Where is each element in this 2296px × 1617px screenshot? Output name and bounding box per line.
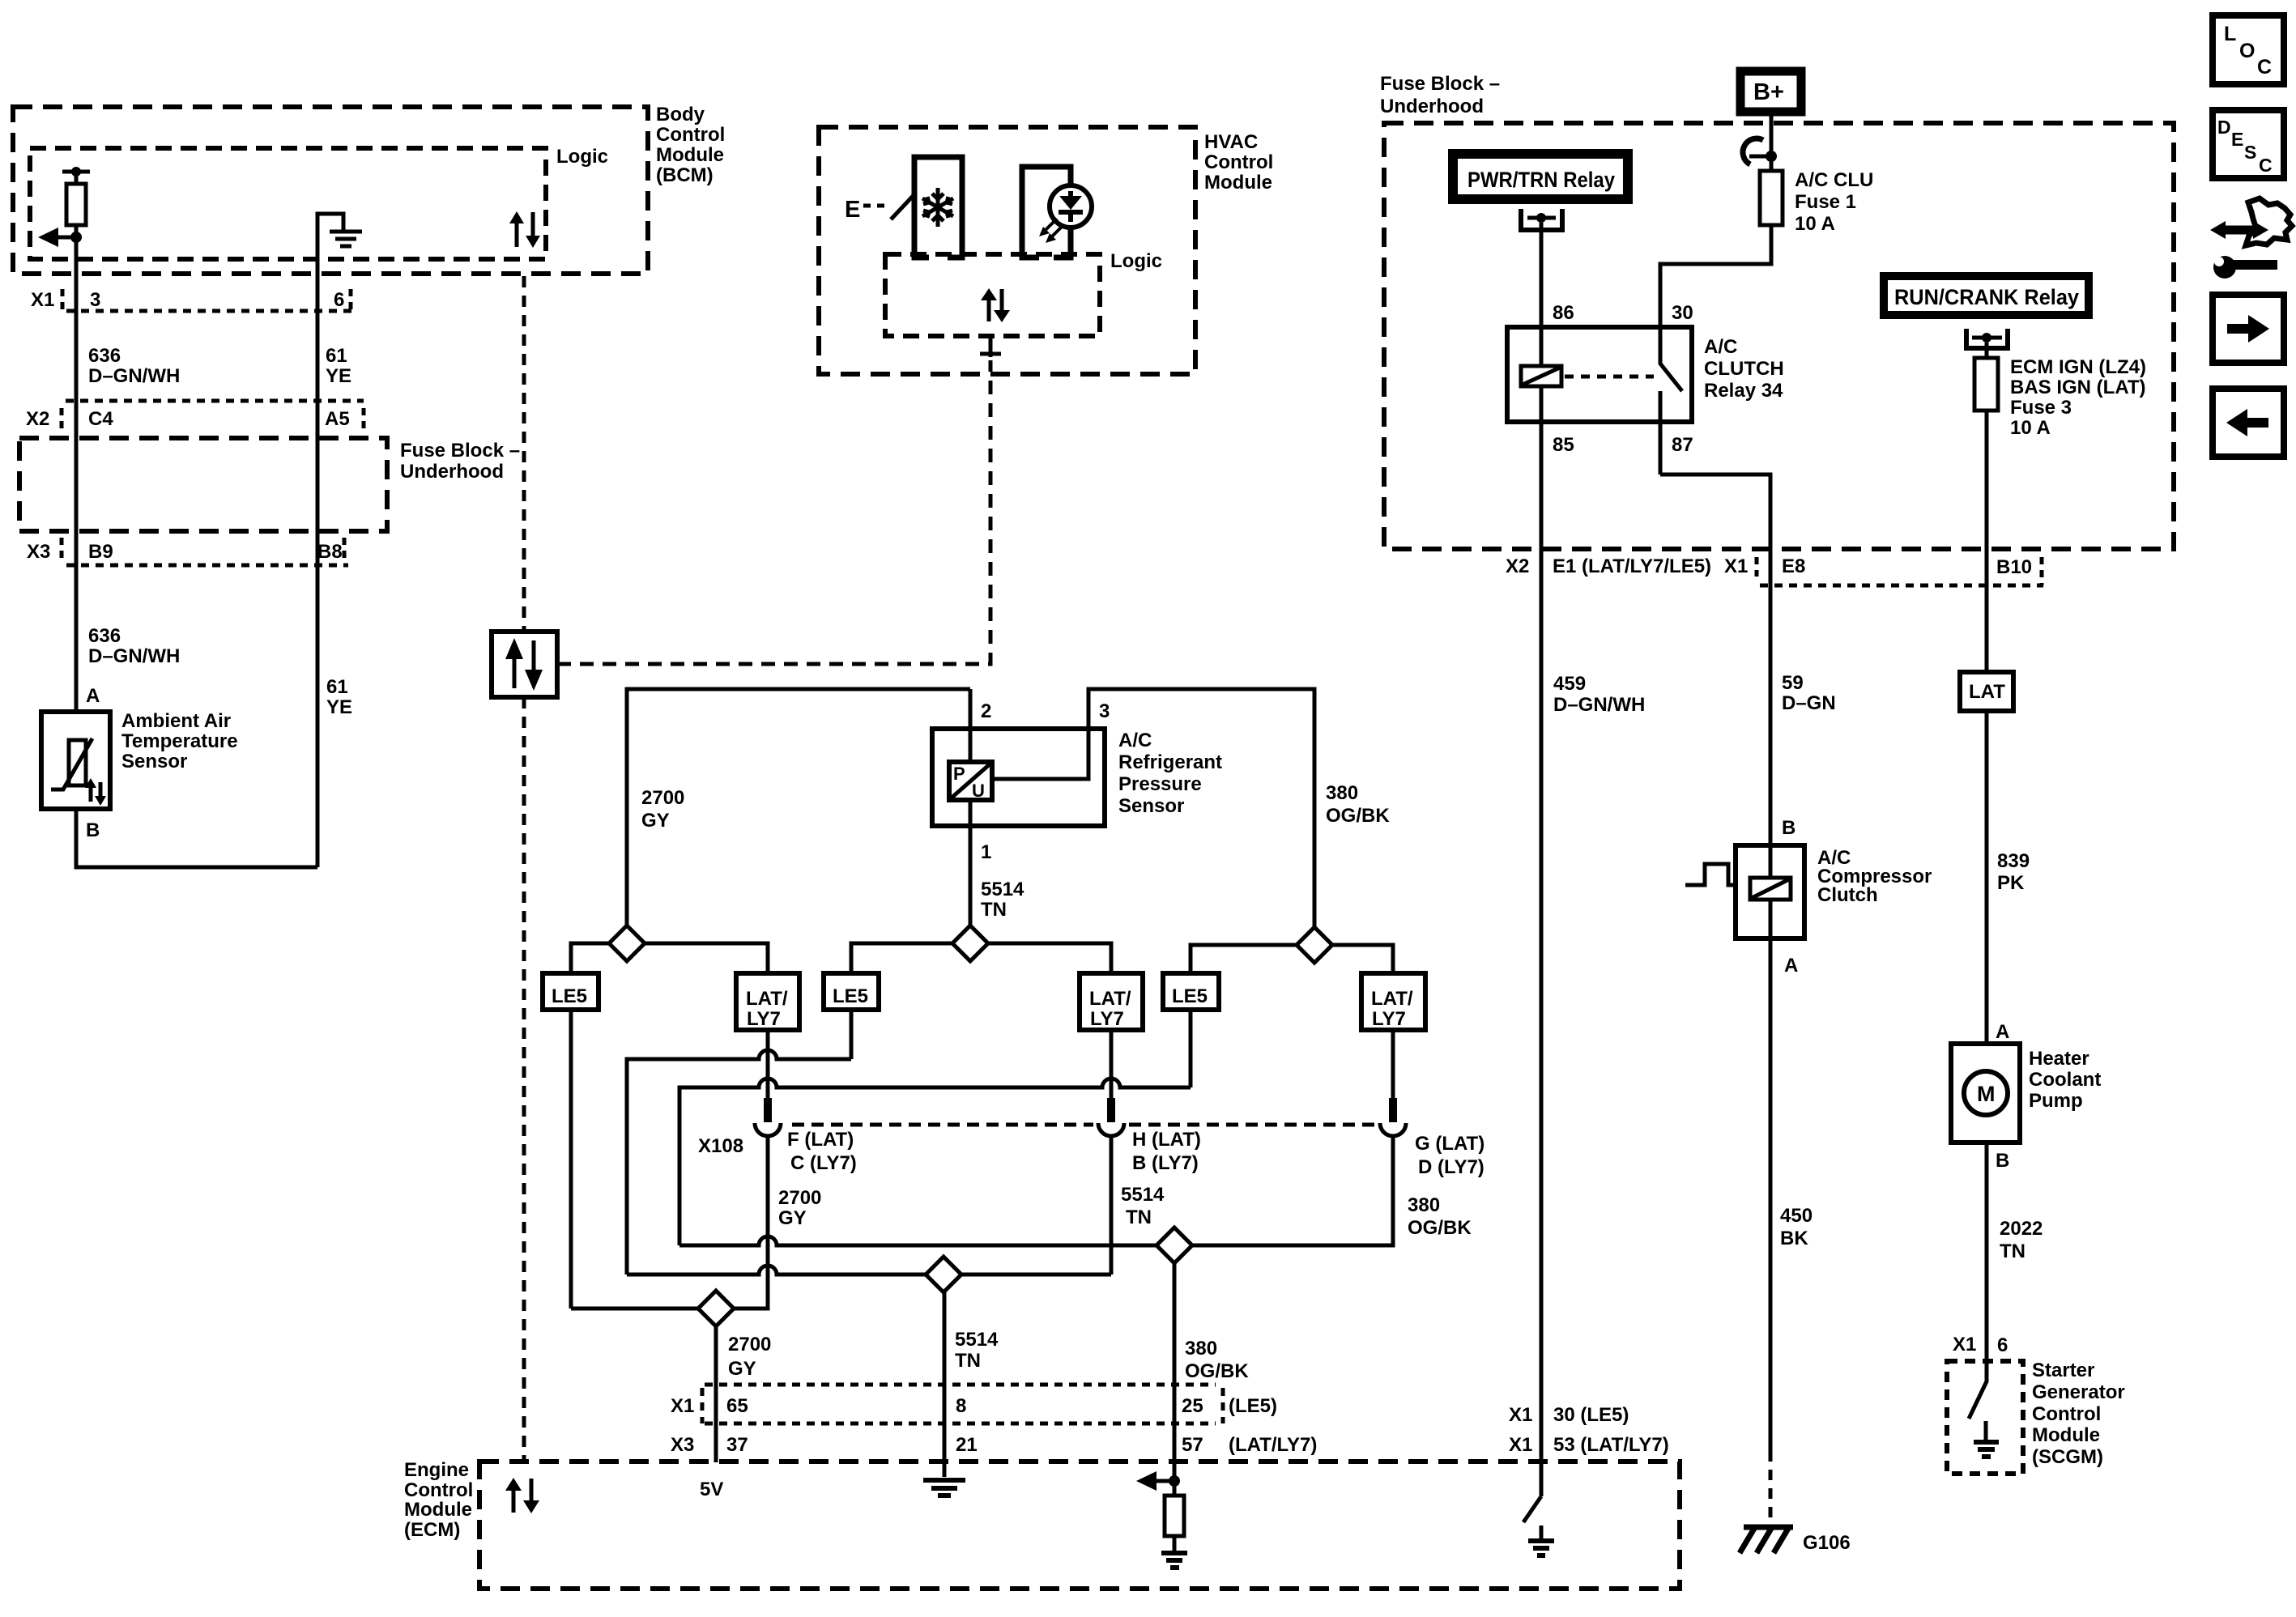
- pump motor circle: [1964, 1071, 2008, 1115]
- wire resistor to node: [75, 225, 79, 237]
- svg-text:LE5: LE5: [552, 985, 587, 1007]
- wire LAT/LY7#1 down to X108 pin: [766, 1030, 770, 1098]
- svg-text:5514: 5514: [955, 1329, 999, 1351]
- svg-text:TN: TN: [955, 1350, 981, 1372]
- svg-text:8: 8: [956, 1395, 966, 1417]
- svg-text:839: 839: [1997, 850, 2030, 872]
- svg-text:380: 380: [1326, 782, 1358, 804]
- engine code box LE5 #1: [543, 973, 598, 1010]
- svg-text:Control: Control: [1204, 151, 1273, 173]
- svg-text:A: A: [1996, 1021, 2009, 1043]
- svg-text:Logic: Logic: [1110, 250, 1162, 272]
- svg-text:(LAT/LY7): (LAT/LY7): [1229, 1434, 1317, 1456]
- SCGM ground: [1984, 1421, 1988, 1440]
- svg-text:Module: Module: [1204, 172, 1272, 194]
- svg-text:M: M: [1977, 1082, 1996, 1106]
- svg-text:2022: 2022: [2000, 1218, 2043, 1240]
- wire LAT to heater pump: [1985, 711, 1989, 1044]
- svg-text:A: A: [1784, 955, 1798, 977]
- wire 85 down to ECM: [1540, 422, 1544, 1496]
- svg-text:LE5: LE5: [1172, 985, 1208, 1007]
- svg-text:61: 61: [326, 676, 348, 698]
- X1 connector dashed line: [66, 309, 356, 313]
- resistor top junction dot: [71, 167, 81, 177]
- svg-text:TN: TN: [981, 899, 1007, 921]
- LED light arrows: [1039, 219, 1063, 243]
- engine code box LAT/LY7 #2: [1080, 973, 1143, 1030]
- svg-text:C4: C4: [88, 408, 113, 430]
- wire to ECM 25: [1173, 1263, 1177, 1496]
- internal wire pin3: [992, 689, 1314, 927]
- svg-text:LAT: LAT: [1969, 681, 2005, 703]
- svg-text:OG/BK: OG/BK: [1326, 805, 1390, 827]
- X108 dashed connector line: [792, 1123, 1093, 1127]
- svg-text:636: 636: [88, 345, 121, 367]
- svg-text:D–GN: D–GN: [1782, 692, 1836, 714]
- svg-text:B: B: [1782, 817, 1795, 839]
- DESC icon box: [2213, 110, 2284, 178]
- svg-text:30 (LE5): 30 (LE5): [1553, 1404, 1629, 1426]
- sensor box: [932, 729, 1105, 826]
- svg-text:E1 (LAT/LY7/LE5): E1 (LAT/LY7/LE5): [1553, 555, 1711, 577]
- svg-text:X1: X1: [1953, 1334, 1976, 1355]
- LED diode: [1059, 196, 1082, 210]
- engine code box LAT/LY7 #3: [1361, 973, 1425, 1030]
- svg-text:B8: B8: [317, 541, 343, 563]
- ground symbol inside BCM logic: [317, 214, 343, 311]
- svg-text:BAS IGN (LAT): BAS IGN (LAT): [2010, 377, 2146, 398]
- svg-text:Module: Module: [404, 1499, 472, 1521]
- svg-text:Logic: Logic: [556, 146, 608, 168]
- RUN/CRANK flag symbol: [1966, 329, 2008, 348]
- HVAC logic stub: [980, 336, 1001, 357]
- svg-text:Engine: Engine: [404, 1459, 469, 1481]
- svg-text:X1: X1: [1509, 1434, 1532, 1456]
- svg-text:OG/BK: OG/BK: [1408, 1217, 1472, 1239]
- signal arrow left: [1156, 1479, 1174, 1483]
- svg-text:2: 2: [981, 700, 991, 722]
- wire 87 to compressor column: [1660, 474, 1770, 845]
- svg-text:O: O: [2239, 40, 2255, 62]
- fuse block underhood (left) dashed box: [19, 438, 387, 531]
- A/C CLU Fuse 1: [1760, 171, 1783, 225]
- P/U transducer square: [949, 762, 992, 800]
- heater coolant pump box: [1951, 1044, 2020, 1143]
- splice diamond (5514 TN): [952, 926, 988, 961]
- svg-text:S: S: [2244, 142, 2256, 163]
- A/C CLUTCH relay box: [1507, 327, 1692, 422]
- svg-text:61: 61: [326, 345, 347, 367]
- wire 2700 GY top run: [627, 689, 970, 926]
- svg-text:636: 636: [88, 625, 121, 647]
- wire H down, corner at 1574: [1110, 1135, 1114, 1274]
- svg-text:Sensor: Sensor: [121, 751, 187, 772]
- svg-text:PWR/TRN Relay: PWR/TRN Relay: [1467, 168, 1615, 192]
- ECM X3 connector dashed line: [705, 1422, 1216, 1426]
- svg-text:59: 59: [1782, 672, 1804, 694]
- wire to ECM 65: [714, 1326, 718, 1462]
- svg-text:Underhood: Underhood: [400, 461, 504, 483]
- svg-text:450: 450: [1780, 1205, 1813, 1227]
- svg-text:Module: Module: [2032, 1424, 2100, 1446]
- wire fuse 3 down: [1985, 411, 1989, 672]
- svg-text:(LE5): (LE5): [1229, 1395, 1277, 1417]
- dashed serial wire splice box to HVAC: [557, 360, 990, 664]
- ECM X1 connector dashed line: [705, 1383, 1216, 1387]
- svg-text:Coolant: Coolant: [2029, 1069, 2101, 1091]
- branch wires diamond1: [571, 943, 609, 973]
- svg-text:Fuse Block –: Fuse Block –: [1380, 73, 1500, 95]
- ECM internal ground: [1540, 1526, 1544, 1539]
- SCGM switch blade: [1969, 1361, 1987, 1419]
- switch blade: [891, 193, 916, 219]
- ECM serial arrows: [512, 1488, 516, 1513]
- wire BCM pin 6 down (61 YE): [316, 311, 320, 867]
- svg-text:E: E: [2231, 129, 2243, 150]
- svg-text:459: 459: [1553, 673, 1586, 695]
- svg-text:C: C: [2257, 56, 2272, 79]
- svg-text:G (LAT): G (LAT): [1415, 1133, 1485, 1155]
- svg-text:Fuse 1: Fuse 1: [1795, 191, 1856, 213]
- svg-text:A5: A5: [325, 408, 350, 430]
- svg-text:B10: B10: [1996, 556, 2032, 578]
- svg-text:65: 65: [726, 1395, 748, 1417]
- svg-text:ECM IGN (LZ4): ECM IGN (LZ4): [2010, 356, 2146, 378]
- relay coil: [1521, 366, 1561, 386]
- svg-text:57: 57: [1182, 1434, 1203, 1456]
- branch wires diamond2: [851, 943, 952, 973]
- svg-text:A/C: A/C: [1704, 336, 1737, 358]
- svg-text:B+: B+: [1753, 79, 1784, 105]
- fuse block underhood (right) dashed box: [1384, 123, 2174, 549]
- lower bus 1616: [571, 1307, 716, 1311]
- splice diamond lower (380 OG/BK): [1157, 1228, 1192, 1263]
- svg-text:B: B: [1996, 1150, 2009, 1172]
- svg-text:Refrigerant: Refrigerant: [1118, 751, 1222, 773]
- node dot on 380 wire: [1169, 1475, 1180, 1487]
- ECM internal switch blade: [1523, 1496, 1541, 1522]
- X108 pin F: [764, 1098, 772, 1122]
- splice diamond lower (2700 GY): [698, 1291, 734, 1326]
- svg-text:YE: YE: [326, 696, 352, 718]
- svg-text:5514: 5514: [1121, 1184, 1165, 1206]
- svg-text:Pressure: Pressure: [1118, 773, 1202, 795]
- PWR/TRN Relay label box: [1453, 154, 1628, 199]
- B+ feed wire: [1770, 116, 1774, 171]
- wire PWR/TRN to relay coil 86: [1540, 223, 1544, 327]
- svg-text:TN: TN: [1126, 1206, 1152, 1228]
- wire LE5#1 down: [569, 1010, 573, 1308]
- svg-text:(SCGM): (SCGM): [2032, 1446, 2103, 1468]
- splice diamond lower (5514 TN): [926, 1257, 961, 1292]
- svg-text:A: A: [86, 685, 100, 707]
- svg-text:D–GN/WH: D–GN/WH: [88, 645, 180, 667]
- wire LAT/LY7#2 down to X108 pin: [1110, 1030, 1114, 1098]
- svg-text:RUN/CRANK Relay: RUN/CRANK Relay: [1894, 285, 2079, 309]
- svg-text:TN: TN: [2000, 1240, 2026, 1262]
- svg-text:6: 6: [334, 289, 344, 311]
- serial data arrows in BCM logic: [515, 221, 519, 247]
- svg-text:5V: 5V: [700, 1479, 723, 1500]
- svg-text:GY: GY: [778, 1207, 807, 1229]
- svg-text:Sensor: Sensor: [1118, 795, 1184, 817]
- E dashed control line: [863, 204, 891, 208]
- svg-text:B: B: [86, 819, 100, 841]
- svg-text:LAT/: LAT/: [1371, 988, 1413, 1010]
- svg-text:U: U: [972, 781, 985, 801]
- resistor to ground: [1165, 1496, 1184, 1536]
- svg-text:LY7: LY7: [1372, 1008, 1406, 1030]
- svg-text:E8: E8: [1782, 555, 1805, 577]
- svg-text:Temperature: Temperature: [121, 730, 238, 752]
- svg-text:Fuse 3: Fuse 3: [2010, 397, 2072, 419]
- X108 pin G: [1389, 1098, 1397, 1122]
- svg-text:86: 86: [1553, 302, 1574, 324]
- svg-text:X108: X108: [698, 1135, 743, 1157]
- svg-text:C: C: [2259, 155, 2273, 176]
- svg-text:HVAC: HVAC: [1204, 131, 1258, 153]
- relay dashed link: [1565, 375, 1654, 379]
- ground symbol: [1161, 1553, 1187, 1568]
- svg-text:Control: Control: [404, 1479, 473, 1501]
- wire sensor B down and loop to 61 YE: [76, 809, 317, 867]
- resistor (BCM pull-up) top bar: [62, 170, 90, 174]
- svg-text:GY: GY: [641, 810, 670, 832]
- wire BCM pin 3 down: [75, 237, 79, 712]
- lower bus 1538 with hops: [679, 1236, 1165, 1245]
- svg-text:1: 1: [981, 841, 991, 863]
- svg-text:P: P: [953, 764, 965, 784]
- svg-text:6: 6: [1997, 1334, 2008, 1356]
- ECM module dashed box: [479, 1462, 1680, 1589]
- svg-text:Underhood: Underhood: [1380, 96, 1484, 117]
- svg-text:3: 3: [1099, 700, 1110, 722]
- svg-text:LE5: LE5: [833, 985, 868, 1007]
- lower bus 1574 with hop: [627, 1266, 1111, 1274]
- svg-text:2700: 2700: [778, 1187, 821, 1209]
- svg-text:B (LY7): B (LY7): [1132, 1152, 1199, 1174]
- svg-text:Starter: Starter: [2032, 1360, 2094, 1381]
- wire F down, corner at 1616: [716, 1135, 768, 1308]
- LED circle: [1050, 185, 1092, 228]
- ECM IGN / BAS IGN Fuse 3: [1985, 343, 1989, 358]
- wire LAT/LY7#3 down to X108 pin: [1391, 1030, 1395, 1098]
- BCM module dashed box: [13, 107, 648, 274]
- svg-text:25: 25: [1182, 1395, 1203, 1417]
- splice diamond (380 OG/BK): [1297, 927, 1332, 963]
- back arrow icon box: [2213, 389, 2284, 457]
- svg-text:E: E: [845, 197, 860, 223]
- wire pin1 down to splice: [969, 800, 973, 926]
- HVAC indicator (LED) box: [1022, 167, 1071, 257]
- clutch mechanical link: [1685, 864, 1736, 885]
- svg-text:LY7: LY7: [747, 1008, 781, 1030]
- LOC icon box: [2213, 15, 2284, 84]
- svg-text:Generator: Generator: [2032, 1381, 2125, 1403]
- svg-text:30: 30: [1672, 302, 1693, 324]
- splice diamond (2700 GY): [609, 926, 645, 961]
- svg-text:Control: Control: [2032, 1403, 2101, 1425]
- wire to ECM 8: [943, 1292, 947, 1477]
- svg-text:10 A: 10 A: [2010, 417, 2051, 439]
- svg-text:OG/BK: OG/BK: [1185, 1360, 1249, 1382]
- svg-text:X2: X2: [1506, 555, 1529, 577]
- svg-text:37: 37: [726, 1434, 748, 1456]
- svg-text:Pump: Pump: [2029, 1090, 2083, 1112]
- svg-text:X1: X1: [31, 289, 54, 311]
- ambient air temperature sensor box: [41, 712, 110, 809]
- svg-text:X1: X1: [671, 1395, 694, 1417]
- svg-text:3: 3: [90, 289, 100, 311]
- svg-text:G106: G106: [1803, 1532, 1851, 1554]
- fusible link curl: [1743, 138, 1763, 164]
- svg-text:Module: Module: [656, 144, 724, 166]
- engine code box LE5 #3: [1163, 973, 1219, 1010]
- svg-text:85: 85: [1553, 434, 1574, 456]
- harness routing icon: [2210, 198, 2292, 279]
- svg-text:21: 21: [956, 1434, 978, 1456]
- RUN/CRANK Relay label box: [1884, 276, 2089, 315]
- BCM logic dashed box: [30, 148, 546, 259]
- svg-text:YE: YE: [326, 365, 351, 387]
- PWR/TRN flag symbol: [1521, 209, 1562, 230]
- svg-text:Control: Control: [656, 124, 725, 146]
- serial data splice box: [492, 632, 557, 697]
- svg-text:B9: B9: [88, 541, 113, 563]
- svg-text:2700: 2700: [728, 1334, 771, 1355]
- svg-text:D–GN/WH: D–GN/WH: [88, 365, 180, 387]
- HVAC module dashed box: [819, 127, 1195, 374]
- SCGM dashed box: [1947, 1361, 2023, 1474]
- next arrow icon box: [2213, 295, 2284, 363]
- svg-text:Ambient Air: Ambient Air: [121, 710, 231, 732]
- svg-text:X1: X1: [1724, 555, 1748, 577]
- svg-text:10 A: 10 A: [1795, 213, 1835, 235]
- dashed serial wire splice box to ECM: [522, 697, 526, 1462]
- signal arrow to left: [58, 236, 76, 240]
- svg-text:Body: Body: [656, 104, 705, 126]
- svg-text:LAT/: LAT/: [746, 988, 788, 1010]
- svg-text:D–GN/WH: D–GN/WH: [1553, 694, 1645, 716]
- svg-text:BK: BK: [1780, 1228, 1808, 1249]
- svg-text:380: 380: [1408, 1194, 1440, 1216]
- engine code box LAT/LY7 #1: [736, 973, 799, 1030]
- wire fuse to relay pin 30: [1660, 225, 1771, 327]
- svg-text:2700: 2700: [641, 787, 684, 809]
- wire G down, corner at 1538: [1183, 1135, 1393, 1245]
- resistor R body: [75, 172, 79, 184]
- clutch coil: [1750, 878, 1791, 900]
- svg-text:CLUTCH: CLUTCH: [1704, 358, 1784, 380]
- X3 connector dashed line: [66, 564, 348, 568]
- HVAC temperature switch box: [914, 157, 962, 257]
- svg-text:5514: 5514: [981, 879, 1024, 900]
- ground at ECM pin 21: [923, 1480, 965, 1496]
- snowflake icon: [922, 188, 953, 227]
- A/C compressor clutch box: [1736, 845, 1804, 938]
- svg-text:LY7: LY7: [1090, 1008, 1124, 1030]
- svg-text:Relay 34: Relay 34: [1704, 380, 1783, 402]
- X108 pin H: [1107, 1098, 1115, 1122]
- svg-text:H (LAT): H (LAT): [1132, 1129, 1201, 1151]
- svg-text:LAT/: LAT/: [1089, 988, 1131, 1010]
- svg-text:380: 380: [1185, 1338, 1217, 1360]
- svg-text:(ECM): (ECM): [404, 1519, 460, 1541]
- X1 E8/B10 connector dashed line: [1760, 584, 2043, 588]
- svg-text:Fuse Block –: Fuse Block –: [400, 440, 520, 462]
- svg-text:D (LY7): D (LY7): [1418, 1156, 1485, 1178]
- svg-text:Clutch: Clutch: [1817, 884, 1878, 906]
- svg-text:D: D: [2217, 117, 2231, 138]
- svg-text:53 (LAT/LY7): 53 (LAT/LY7): [1553, 1434, 1669, 1456]
- svg-text:F (LAT): F (LAT): [787, 1129, 854, 1151]
- svg-text:A/C CLU: A/C CLU: [1795, 169, 1873, 191]
- wire pin2 riser: [969, 689, 973, 762]
- wire pump to SCGM: [1985, 1143, 1989, 1365]
- dashed serial wire BCM to splice box: [522, 276, 526, 632]
- wire LE5#2 down and left (hop over 948): [850, 1010, 854, 1059]
- svg-text:87: 87: [1672, 434, 1693, 456]
- branch wires diamond3: [1191, 945, 1297, 973]
- svg-text:L: L: [2224, 23, 2236, 45]
- svg-text:X1: X1: [1509, 1404, 1532, 1426]
- HVAC logic dashed box: [885, 254, 1100, 336]
- svg-text:A/C: A/C: [1118, 730, 1152, 751]
- svg-text:PK: PK: [1997, 872, 2025, 894]
- LAT code box: [1960, 672, 2013, 711]
- engine code box LE5 #2: [824, 973, 879, 1010]
- svg-text:X2: X2: [26, 408, 49, 430]
- thermistor symbol: [69, 740, 86, 785]
- sensor small arrows: [89, 785, 93, 802]
- X2 connector dashed line: [66, 399, 364, 403]
- wire LE5#3 down and left (hops over 1372,948): [1189, 1010, 1193, 1087]
- svg-text:C (LY7): C (LY7): [790, 1152, 857, 1174]
- G106 chassis ground: [1744, 1525, 1793, 1530]
- svg-text:X3: X3: [27, 541, 50, 563]
- svg-text:X3: X3: [671, 1434, 694, 1456]
- relay contact blade: [1660, 327, 1682, 391]
- LED vertical wire: [1068, 167, 1073, 257]
- svg-text:Heater: Heater: [2029, 1048, 2089, 1070]
- svg-text:(BCM): (BCM): [656, 164, 714, 186]
- wire 450 BK down: [1769, 938, 1773, 1451]
- svg-text:GY: GY: [728, 1358, 756, 1380]
- node dot: [70, 232, 82, 243]
- HVAC logic serial arrows: [987, 298, 991, 321]
- B+ power box: [1740, 71, 1801, 112]
